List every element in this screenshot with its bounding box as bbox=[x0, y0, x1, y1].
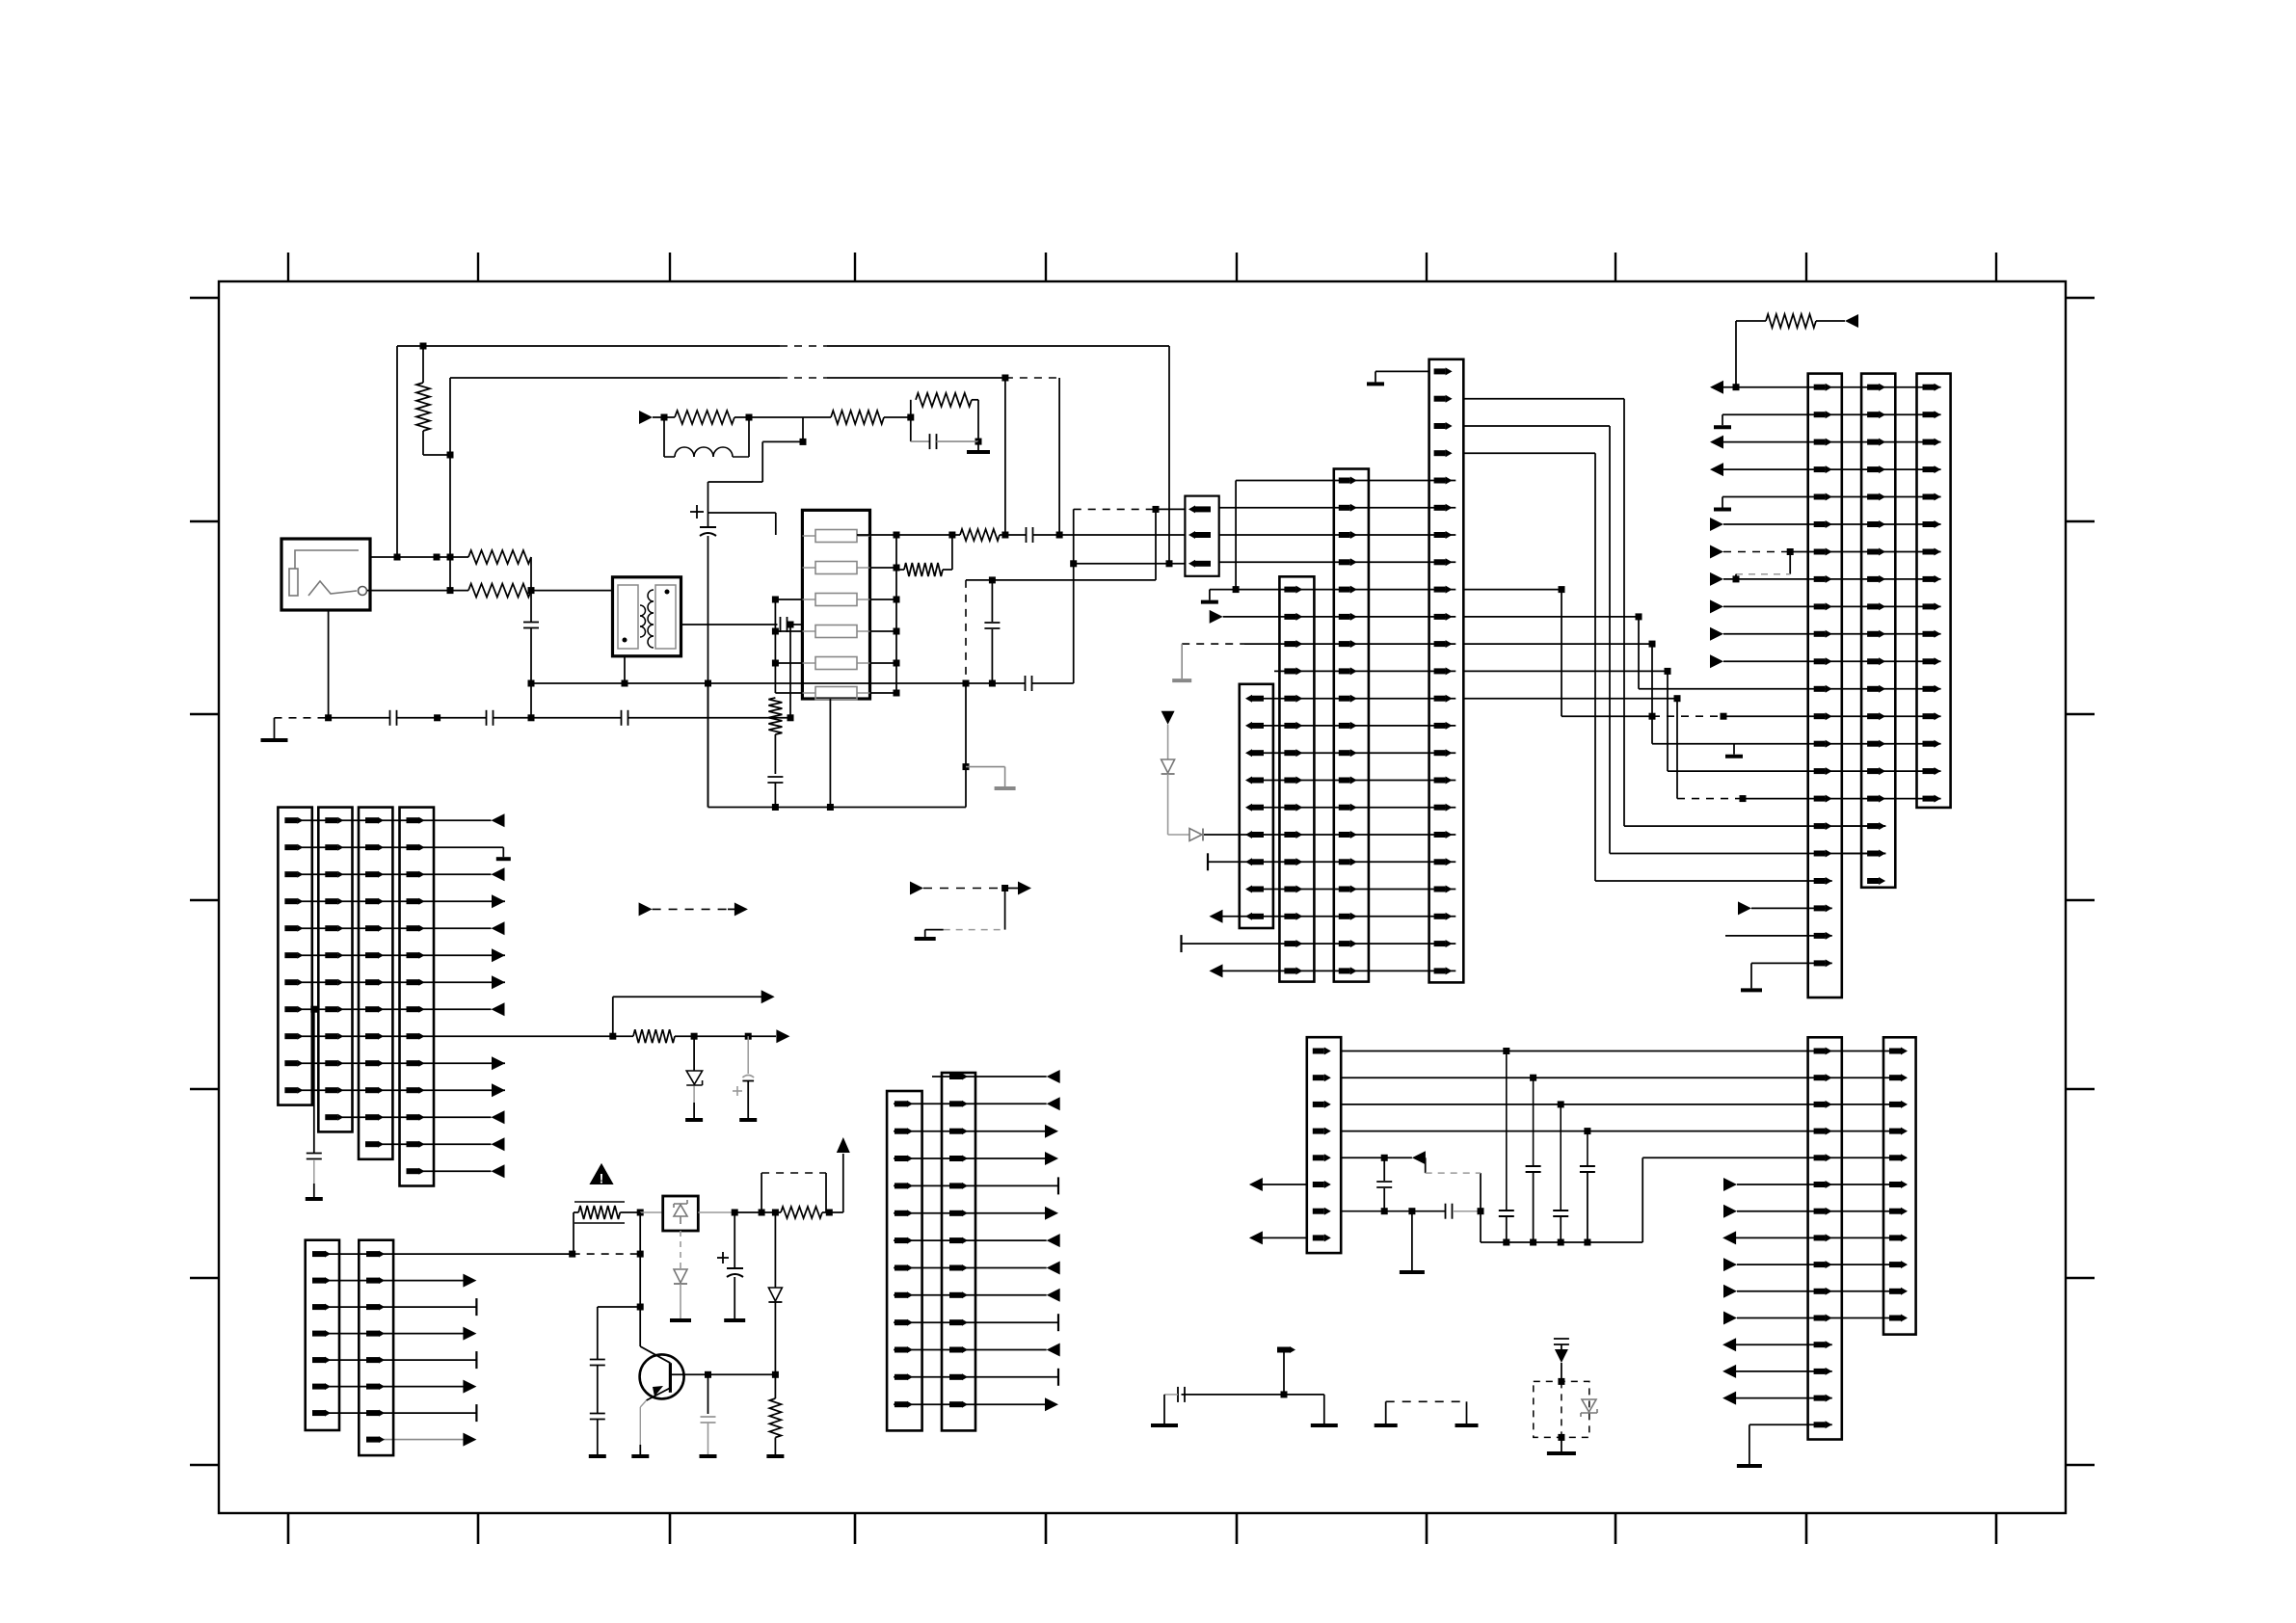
wire capdrop v4 lower bbox=[1587, 1172, 1589, 1242]
bus2 dashed segment a bbox=[780, 377, 827, 379]
connector CN12 pins bbox=[284, 817, 297, 823]
wire row r7 cap bbox=[1341, 1211, 1445, 1212]
node p8 c bbox=[745, 1033, 752, 1040]
wire row k0 riser bbox=[1235, 481, 1237, 590]
connector CN5 box bbox=[1429, 359, 1464, 983]
connector CN7 pins bbox=[1867, 385, 1879, 390]
wire row q7 bbox=[366, 1439, 464, 1441]
node nest k7 bbox=[1665, 668, 1671, 675]
node R8 top bbox=[948, 532, 955, 539]
wire nest m12 dashed bbox=[1652, 715, 1723, 717]
capacitor C10 series chain bbox=[1026, 527, 1028, 543]
filter block U1 box bbox=[802, 510, 869, 699]
connector CN8 box bbox=[1917, 374, 1951, 808]
wire R14 lower lead bbox=[774, 1438, 776, 1455]
wire row r1 bbox=[1341, 1051, 1906, 1052]
connector CN5 pins bbox=[1434, 368, 1446, 374]
wire dashed jog right leg bbox=[825, 1173, 827, 1212]
connector CN13 pins bbox=[325, 817, 337, 823]
wire row j10 bbox=[894, 1349, 1047, 1351]
wire lower bus b bbox=[397, 717, 487, 719]
wire p8 upper branch bbox=[613, 996, 761, 998]
arrow p8 upper bbox=[761, 990, 775, 1003]
wire row m12 bbox=[1723, 715, 1941, 717]
arrow row r11 right bbox=[1723, 1312, 1737, 1325]
node r2 capdrop bbox=[1530, 1075, 1536, 1081]
wire main line drop bbox=[802, 417, 804, 441]
connector CN19 box bbox=[942, 1073, 975, 1430]
node reg b bbox=[732, 1210, 738, 1216]
wire row p0 bbox=[286, 819, 492, 821]
wire snubber vertical bbox=[910, 400, 912, 441]
node reg c bbox=[772, 1210, 779, 1216]
resistor R4 main bbox=[675, 411, 734, 424]
wire cap stack upper bbox=[597, 1307, 599, 1359]
dashed jumper right foot bbox=[1455, 1423, 1479, 1427]
arrow row j3 bbox=[1045, 1152, 1058, 1165]
connector CN13 box bbox=[318, 808, 352, 1132]
node R3 right bbox=[528, 587, 535, 594]
node r3 capdrop bbox=[1558, 1101, 1564, 1107]
wire row p6 bbox=[286, 981, 505, 983]
connector CN2 pins bbox=[1245, 695, 1252, 703]
wire row k18 bbox=[1223, 970, 1456, 971]
jack J1 inner wire bbox=[295, 550, 359, 569]
node lower bus right end bbox=[788, 714, 794, 721]
arrow row m10 bbox=[1710, 654, 1723, 668]
wire r5-r7 link bbox=[1383, 1157, 1385, 1181]
node C2 output tap bbox=[788, 622, 794, 628]
wire row m5 bbox=[1723, 523, 1941, 525]
wire C7 top to L-path bbox=[708, 481, 763, 483]
node r4 capdrop bbox=[1584, 1128, 1590, 1134]
wire emitter lead bbox=[640, 1400, 646, 1407]
jack J1 inner contact bbox=[289, 569, 298, 596]
transistor Q1 circle bbox=[640, 1354, 684, 1398]
filter left bus nodes bbox=[772, 597, 779, 603]
wire L-path vertical bbox=[761, 441, 763, 482]
connector CN7 box bbox=[1861, 374, 1895, 888]
wire R12 left lead bbox=[574, 1211, 578, 1213]
wire vertical C2 tap to lower bus bbox=[789, 625, 791, 718]
wire row p12 bbox=[366, 1143, 492, 1145]
wire m0 top link bbox=[1736, 320, 1766, 322]
arrow row p7 bbox=[492, 1002, 505, 1016]
gnd-tick row k-4 bbox=[1375, 371, 1376, 382]
wire row r8 left bbox=[1262, 1237, 1307, 1238]
arrow row j7 bbox=[1047, 1262, 1060, 1275]
transformer T1 right winding frame bbox=[655, 585, 676, 649]
wire nest k8 stub bbox=[1463, 698, 1677, 700]
wire row m2 bbox=[1723, 441, 1941, 443]
wire row k3 bbox=[1219, 561, 1456, 563]
node q0 bbox=[569, 1251, 575, 1258]
wire row k16 bbox=[1223, 916, 1456, 918]
capacitor C7 plus sign bbox=[690, 511, 704, 513]
wire jumpB drop bbox=[1004, 889, 1006, 930]
capacitor C11 bbox=[984, 622, 1000, 624]
wire row r13 right bbox=[1736, 1370, 1832, 1372]
connector CN14 pins bbox=[365, 817, 378, 823]
wire nest m15 dashed bbox=[1677, 798, 1743, 800]
arrow row p0 bbox=[492, 813, 505, 827]
capacitor C14 plates bbox=[1553, 1210, 1568, 1211]
wire transformer bottom lead bbox=[624, 656, 626, 683]
node C11 bottom bbox=[989, 680, 996, 687]
connector CN19 pins bbox=[949, 1074, 962, 1079]
wire C2 to filter box bbox=[790, 624, 803, 625]
wire row r5 from N bbox=[1341, 1157, 1412, 1158]
wire nest k4 stub bbox=[1463, 589, 1562, 591]
wire cap stack lower bbox=[597, 1420, 599, 1454]
wire capdrop v1 upper bbox=[1506, 1051, 1508, 1211]
node capdrop v1 bus bbox=[1503, 1239, 1509, 1246]
node R6 bottom bbox=[975, 439, 982, 445]
wire row602 bbox=[966, 579, 1156, 581]
wire row k12 bbox=[1247, 807, 1455, 809]
wire capdrop v1 lower bbox=[1506, 1216, 1508, 1242]
filter block U1 internal resistors bbox=[815, 530, 857, 543]
connector CN4 box bbox=[1334, 469, 1369, 982]
arrow row p2 bbox=[492, 867, 505, 881]
node R1 join bbox=[447, 452, 454, 459]
node row1-row3 join bbox=[1070, 560, 1077, 567]
tick row q6 bbox=[475, 1404, 477, 1422]
arrow row j2 bbox=[1045, 1125, 1058, 1138]
arrow row m0 bbox=[1710, 381, 1723, 394]
tick row j9 bbox=[1057, 1314, 1059, 1331]
node row602 riser top bbox=[1153, 506, 1160, 513]
wire lower bus c bbox=[494, 717, 622, 719]
bus1 horizontal wire bbox=[397, 345, 780, 347]
wire bus2 drop b bbox=[1058, 378, 1060, 535]
wire C7 bottom lead bbox=[707, 536, 709, 808]
node capdrop v2 bus bbox=[1530, 1239, 1536, 1246]
ground symbol lower-left stem bbox=[274, 718, 276, 738]
wire D5 lower lead bbox=[774, 1302, 776, 1374]
dashed jumper left foot bbox=[1375, 1423, 1398, 1427]
capacitor C4 series lower bus bbox=[389, 710, 391, 726]
wire C11 leg upper bbox=[991, 580, 993, 622]
wire C16 lower bbox=[1383, 1188, 1385, 1211]
wire row k7 bbox=[1274, 670, 1455, 672]
arrow row r13 right bbox=[1722, 1365, 1736, 1378]
wire C11 leg lower bbox=[991, 629, 993, 683]
wire row p8 bbox=[286, 1035, 613, 1037]
wire filter box bottom lead bbox=[829, 699, 831, 808]
node r7 b bbox=[1408, 1208, 1415, 1214]
node r5 a bbox=[1381, 1155, 1388, 1161]
arrow row m7 bbox=[1710, 572, 1723, 586]
wire row1 dashed bbox=[1074, 508, 1155, 510]
node nest m12 a bbox=[1649, 713, 1656, 720]
wire nest k5 drop bbox=[1638, 617, 1640, 689]
tick row q4 bbox=[475, 1351, 477, 1369]
capacitor C22 bbox=[701, 1416, 716, 1418]
connector CN8 pins bbox=[1923, 385, 1935, 390]
pin P-float bbox=[1277, 1347, 1290, 1353]
cap bus horizontal bbox=[1481, 1241, 1642, 1243]
node P-float bbox=[1281, 1391, 1288, 1397]
capacitor C16 bbox=[1376, 1181, 1392, 1183]
resistor R6 snubber bbox=[916, 393, 972, 407]
wire row k11 bbox=[1247, 780, 1455, 782]
connector CN12 box bbox=[278, 808, 311, 1105]
arrow r5 bbox=[1412, 1151, 1426, 1164]
bus837 horizontal bbox=[708, 807, 967, 809]
gnd-tick on m13 bbox=[1733, 744, 1735, 755]
arrow row m3 bbox=[1710, 463, 1723, 476]
node k0 riser bottom bbox=[1233, 586, 1240, 593]
node bus1 drop join bbox=[1166, 560, 1173, 567]
wire row j2 bbox=[894, 1131, 1046, 1132]
node base column b bbox=[637, 1304, 644, 1311]
gnd-tick row m4 bbox=[1722, 497, 1723, 508]
node r1 capdrop bbox=[1503, 1048, 1509, 1054]
node cap leg bus709 bbox=[963, 680, 970, 687]
wire Z1 lower lead bbox=[680, 1231, 681, 1269]
zener D3 bbox=[686, 1071, 702, 1084]
filter right bus row links bbox=[870, 567, 897, 569]
wire p8 riser bbox=[612, 997, 614, 1036]
wire reg to zenerbox bbox=[640, 1211, 663, 1213]
node chain filter bus bbox=[894, 532, 900, 539]
wire m0 riser bbox=[1735, 321, 1737, 387]
node RL left bbox=[661, 414, 668, 421]
wire RL right rise bbox=[748, 417, 750, 457]
node nest m12 b bbox=[1721, 713, 1727, 720]
wire row j9 bbox=[894, 1321, 1058, 1323]
node RL right bbox=[746, 414, 753, 421]
connector CN9 box bbox=[1307, 1037, 1341, 1253]
wire C18 lower lead bbox=[747, 1081, 749, 1119]
node reg jog-left bbox=[759, 1210, 765, 1216]
arrow row r9 right bbox=[1723, 1258, 1737, 1271]
arrow row r10 right bbox=[1723, 1285, 1737, 1298]
arrow row p3 bbox=[492, 894, 505, 908]
capacitor C18 plus bbox=[733, 1090, 742, 1092]
wire row q3 bbox=[316, 1333, 464, 1335]
node m6 bbox=[1787, 548, 1794, 555]
wire C22 lower lead bbox=[707, 1423, 709, 1454]
zener Z1 symbol bbox=[674, 1205, 687, 1216]
node D5 bottom bbox=[772, 1371, 779, 1378]
wire nest k8 drop bbox=[1676, 699, 1678, 799]
wire m6 jog down bbox=[1789, 552, 1791, 574]
wire row k6 dashed bbox=[1182, 643, 1244, 645]
node jack ground bbox=[325, 714, 332, 721]
node R7 leg join bbox=[772, 804, 779, 811]
wire row p4 bbox=[286, 927, 492, 929]
bottom border tick marks bbox=[287, 1513, 290, 1544]
node row602 cap tap bbox=[989, 576, 996, 583]
node filter bottom join bbox=[827, 804, 834, 811]
wire row r7 right bbox=[1737, 1211, 1907, 1212]
wire R9 to C10 bbox=[1000, 534, 1027, 536]
wire R12 drop bbox=[573, 1212, 574, 1254]
wire capdrop v3 lower bbox=[1560, 1216, 1562, 1242]
ground r7 bbox=[1400, 1270, 1425, 1274]
gnd row r15 stem bbox=[1749, 1424, 1750, 1464]
arrow row m6 bbox=[1710, 545, 1723, 559]
wire row j12 bbox=[894, 1403, 1046, 1405]
wire row r5 right bbox=[1642, 1157, 1906, 1158]
wire row q1 bbox=[316, 1280, 464, 1282]
node C1/row745 bbox=[528, 714, 535, 721]
wire lower bus a bbox=[329, 717, 390, 719]
wire nest k-2 bbox=[1463, 425, 1610, 427]
wire row m0 bbox=[1723, 386, 1941, 388]
node nest m15 bbox=[1740, 795, 1747, 802]
arrow row k18 bbox=[1210, 964, 1223, 977]
filter right bus bbox=[895, 535, 897, 693]
wire row m7 bbox=[1723, 578, 1941, 580]
wire C7 mid tap bbox=[708, 512, 776, 514]
wire row r9 right bbox=[1737, 1264, 1907, 1265]
wire row m6 dashed bbox=[1723, 551, 1790, 553]
wire R6 corner drop bbox=[977, 400, 979, 441]
wire arrow to node bbox=[653, 416, 675, 418]
wire row r6 right bbox=[1737, 1184, 1907, 1185]
resistor R11 bbox=[633, 1029, 675, 1043]
wire row602 riser bbox=[1155, 509, 1157, 580]
wire r5 jog bbox=[1425, 1157, 1427, 1173]
wire Z2 gnd lead bbox=[1561, 1437, 1562, 1451]
node p8 a bbox=[609, 1033, 616, 1040]
capacitor C15 plates bbox=[1580, 1165, 1595, 1167]
arrow row k16 bbox=[1210, 910, 1223, 923]
wire C10 to connector bbox=[1033, 534, 1186, 536]
capacitor C9 on R7 leg bbox=[767, 776, 783, 778]
signal arrow pair B bbox=[910, 882, 923, 895]
connector CN17 box bbox=[359, 1240, 393, 1455]
wire D1 to D2 bbox=[1167, 774, 1169, 835]
wire row p13 bbox=[407, 1170, 492, 1172]
wire dashed vertical cap leg bbox=[965, 580, 967, 683]
node jack lower wire bbox=[447, 587, 454, 594]
arrow input main line bbox=[639, 411, 653, 424]
wire row1 drop bbox=[1073, 509, 1075, 683]
gnd row k6 bbox=[1172, 678, 1191, 682]
wire row r6 left bbox=[1262, 1184, 1307, 1185]
power-arrow down V1 bbox=[1161, 711, 1175, 725]
arrow row r6 right bbox=[1723, 1178, 1737, 1191]
capacitor C3 series on bus709 bbox=[1025, 676, 1027, 691]
wire cap leg solid bbox=[965, 683, 967, 808]
wire row r14 right bbox=[1736, 1397, 1832, 1399]
wire row j6 bbox=[894, 1239, 1047, 1241]
wire row m6 bbox=[1790, 551, 1940, 553]
left border tick marks bbox=[190, 297, 219, 299]
wire lower bus d bbox=[628, 717, 791, 719]
wire R8 rise bbox=[951, 535, 953, 570]
wire row k1 bbox=[1219, 507, 1456, 509]
node bus709 transformer tap bbox=[705, 680, 711, 687]
arrow row r8 bbox=[1249, 1231, 1263, 1244]
capacitor C6 series lower bus bbox=[621, 710, 623, 726]
wire p8 cont bbox=[694, 1035, 776, 1037]
wire nest k5 stub bbox=[1463, 616, 1639, 618]
node chain bus2b bbox=[1056, 532, 1063, 539]
border frame bbox=[219, 281, 2066, 1513]
wire row m20 bbox=[1725, 935, 1832, 937]
input jack J1 box bbox=[281, 539, 370, 610]
wire row k13 bbox=[1204, 834, 1455, 836]
wire row p5 bbox=[286, 954, 505, 956]
wire L-path horizontal bbox=[762, 440, 803, 442]
wire RL left drop bbox=[663, 417, 665, 457]
wire arrow riser bbox=[842, 1154, 844, 1212]
arrow row j12 bbox=[1045, 1397, 1058, 1411]
wire row r3 bbox=[1341, 1104, 1906, 1105]
wire R3 to transformer bbox=[531, 590, 613, 592]
wire jack lower output bbox=[367, 590, 468, 592]
node C1/row709 bbox=[528, 680, 535, 687]
node capdrop v3 bus bbox=[1558, 1239, 1564, 1246]
connector CN15 box bbox=[400, 808, 435, 1186]
filter left bus bbox=[774, 599, 776, 693]
ground R14 bbox=[766, 1454, 784, 1458]
node on jack top wire bbox=[394, 554, 401, 561]
wire row j3 bbox=[894, 1157, 1046, 1159]
node p8 b bbox=[691, 1033, 698, 1040]
ground snubber bbox=[967, 450, 990, 454]
wire base column bbox=[639, 1212, 641, 1346]
arrow row p5 bbox=[492, 948, 505, 962]
wire row m19 bbox=[1751, 907, 1832, 909]
connector CN16 pins bbox=[312, 1251, 325, 1257]
arrow row r8 right bbox=[1722, 1231, 1736, 1244]
wire C1 down to lower bus bbox=[530, 628, 532, 718]
wire float row bbox=[1182, 1394, 1324, 1396]
wire row j8 bbox=[894, 1294, 1047, 1296]
node m7 bbox=[1733, 575, 1740, 582]
node cap leg mid bbox=[963, 763, 970, 770]
ground C17 bbox=[306, 1197, 323, 1201]
inductor L1 bbox=[664, 456, 675, 458]
wire gnd stub horizontal bbox=[966, 766, 1005, 768]
node bus1 tap bbox=[420, 343, 427, 350]
wire row r10 right bbox=[1737, 1290, 1907, 1292]
dashed box Z2 bbox=[1534, 1381, 1589, 1437]
node chain bus2a bbox=[1001, 532, 1008, 539]
bus2 horizontal wire bbox=[450, 377, 780, 379]
wire m6 jog drop bbox=[1735, 574, 1737, 579]
wire row k17 bbox=[1182, 943, 1456, 945]
ground C19 bbox=[724, 1318, 745, 1322]
wire row j11 bbox=[894, 1376, 1058, 1378]
ground emitter bbox=[631, 1454, 649, 1458]
node V2 top bbox=[1558, 1378, 1564, 1385]
node jack top wire c bbox=[447, 554, 454, 561]
diode D2 bbox=[1189, 829, 1202, 841]
ground bus dashed left end bbox=[275, 717, 329, 719]
transformer T1 polarity dots bbox=[665, 590, 670, 595]
wire row k8 bbox=[1247, 698, 1455, 700]
wire collector row dashed-end bbox=[639, 1253, 642, 1255]
wire jumpB left bbox=[925, 929, 944, 931]
wire row k5 bbox=[1223, 616, 1456, 618]
tick row k14 bbox=[1207, 853, 1209, 870]
arrow row m8 bbox=[1710, 599, 1723, 613]
wire row r15 right bbox=[1749, 1423, 1832, 1425]
wire row m10 bbox=[1723, 660, 1941, 662]
wire row j5 bbox=[894, 1212, 1046, 1214]
wire row m3 bbox=[1723, 468, 1941, 470]
arrow R10 end bbox=[1845, 314, 1858, 328]
wire row p10 bbox=[286, 1089, 505, 1091]
wire dashed jog left leg bbox=[761, 1173, 762, 1212]
